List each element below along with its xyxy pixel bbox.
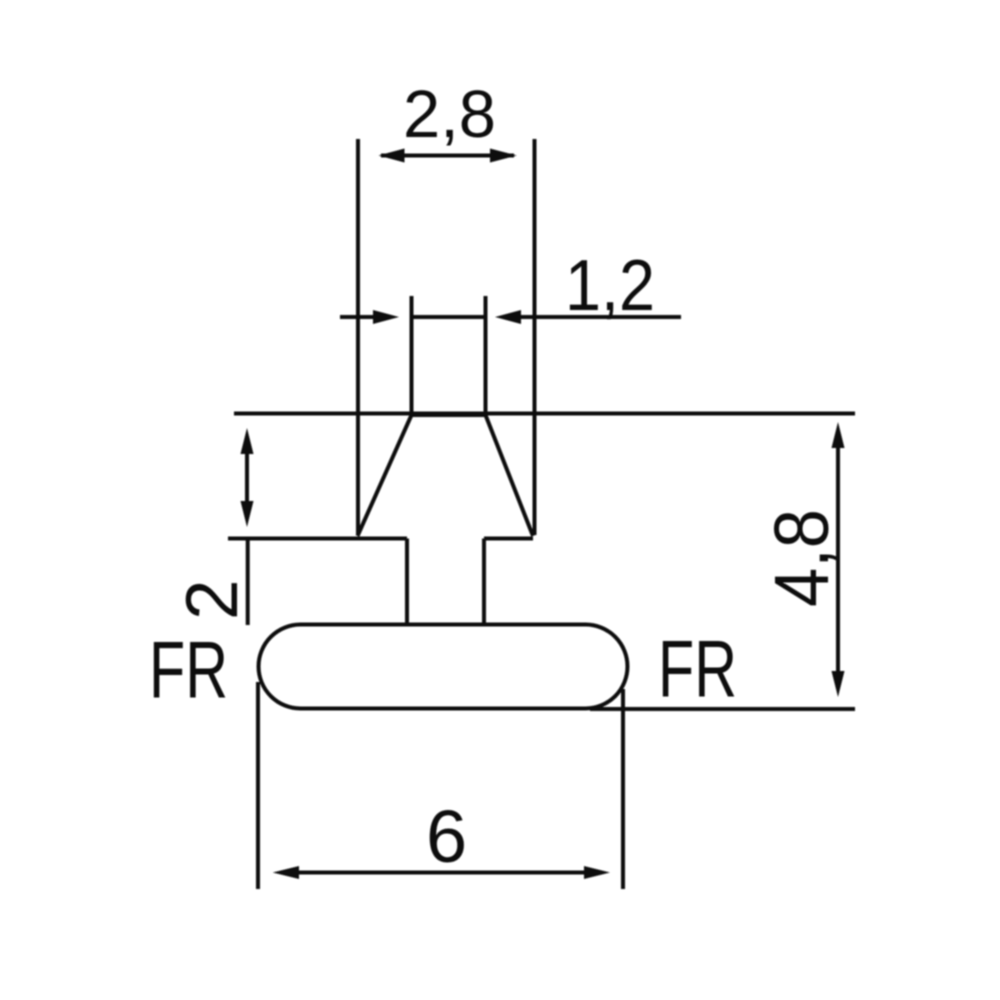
dimension line 6	[282, 871, 601, 875]
profile right slant	[486, 415, 534, 536]
svg-text:FR: FR	[149, 626, 228, 716]
arrowhead trapezoid height top	[241, 428, 254, 454]
extension line 1,2 right	[484, 296, 488, 415]
profile stem left edge	[405, 539, 409, 626]
svg-text:FR: FR	[658, 625, 737, 715]
svg-text:6: 6	[426, 795, 467, 878]
arrowhead 6 right	[584, 866, 610, 879]
extension line at y538 left	[228, 537, 407, 541]
profile stem right edge	[482, 539, 486, 626]
profile base stadium	[259, 625, 628, 709]
svg-text:2: 2	[172, 579, 253, 620]
profile left slant	[358, 415, 412, 536]
dimension line trapezoid height (left double arrow)	[245, 438, 249, 517]
extension line 1,2 left	[410, 296, 414, 415]
arrowhead 1,2 right	[495, 310, 521, 324]
bottom reference line	[590, 707, 855, 711]
dimension line 1,2 inner segment	[413, 315, 486, 319]
arrowhead 6 left	[273, 866, 299, 879]
notch line right	[484, 537, 533, 541]
extension line 2,8 left	[356, 139, 360, 535]
dimension line 4,8	[836, 434, 840, 686]
arrowhead 1,2 left	[373, 310, 399, 324]
arrowhead 4,8 top	[832, 422, 845, 448]
svg-text:4,8: 4,8	[759, 509, 845, 607]
extension line 6 right	[621, 689, 625, 889]
svg-text:1,2: 1,2	[565, 246, 655, 326]
arrowhead 4,8 bottom	[832, 671, 845, 697]
top reference line	[234, 412, 855, 416]
arrowhead 2,8 right	[490, 149, 517, 163]
dimension line 1,2 right leader	[519, 315, 681, 319]
dimension line 1,2 left leader	[340, 315, 374, 319]
arrowhead trapezoid height bottom	[241, 501, 254, 527]
extension line 6 left	[256, 682, 260, 889]
dimension line 2	[246, 539, 250, 626]
extension line 2,8 right	[533, 139, 537, 535]
dimension line 2,8	[381, 154, 514, 158]
svg-text:2,8: 2,8	[403, 77, 496, 152]
arrowhead 2,8 left	[379, 149, 405, 163]
profile top edge	[412, 413, 486, 417]
